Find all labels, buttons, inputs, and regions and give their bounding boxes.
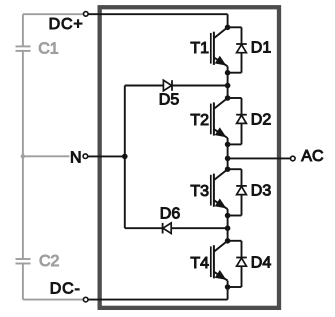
svg-text:N: N — [70, 149, 82, 166]
svg-text:D4: D4 — [251, 255, 272, 272]
svg-text:AC: AC — [301, 148, 323, 165]
svg-text:C1: C1 — [38, 40, 59, 57]
svg-text:C2: C2 — [39, 253, 60, 270]
svg-text:T1: T1 — [190, 40, 209, 57]
svg-text:DC-: DC- — [50, 281, 81, 298]
svg-text:D3: D3 — [251, 183, 272, 200]
svg-text:T4: T4 — [190, 255, 209, 272]
svg-text:D6: D6 — [160, 206, 181, 223]
svg-text:DC+: DC+ — [49, 16, 84, 33]
svg-text:D2: D2 — [251, 112, 272, 129]
svg-text:T2: T2 — [190, 112, 209, 129]
svg-text:D5: D5 — [159, 92, 180, 109]
svg-text:D1: D1 — [251, 40, 272, 57]
svg-text:T3: T3 — [190, 183, 209, 200]
